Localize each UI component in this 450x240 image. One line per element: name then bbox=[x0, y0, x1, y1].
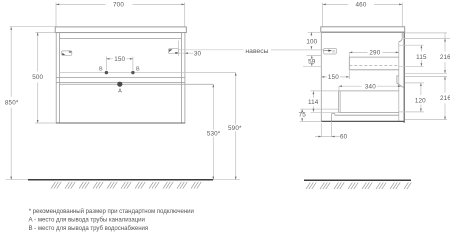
dimension 700 extension lines bbox=[56, 3, 185, 27]
upper drawer box hidden bottom (dashed) bbox=[349, 64, 399, 66]
dimension 460 line bbox=[323, 3, 403, 5]
dimension 850 top extension bbox=[10, 26, 56, 28]
cabinet top edge (side) bbox=[321, 32, 404, 34]
dimension 216 lower extension lines bbox=[405, 77, 448, 120]
dimension 460 arrows bbox=[323, 4, 403, 6]
dimension 500 top extension bbox=[36, 31, 56, 33]
lower drawer step verticals bbox=[332, 114, 335, 122]
dimension 700 line bbox=[56, 3, 185, 5]
dimension 500 arrows bbox=[37, 32, 39, 123]
node B right dot bbox=[131, 71, 134, 74]
dimension 500 line bbox=[37, 32, 39, 123]
svg-text:А - место для вывода трубы кан: А - место для вывода трубы канализации bbox=[29, 217, 145, 224]
hangers leader dashed line left segment bbox=[179, 49, 244, 51]
upper drawer box top bbox=[349, 56, 399, 58]
dimension 30 arrows bbox=[175, 52, 188, 54]
dimension 100 top extension bbox=[308, 31, 322, 33]
drawer gap lower line bbox=[56, 81, 185, 83]
hanger bracket icon left bbox=[62, 51, 72, 55]
dimension 590 line bbox=[235, 73, 237, 180]
cabinet bottom left extension bbox=[300, 120, 322, 122]
dimension 340 line bbox=[339, 85, 401, 87]
countertop (side view) bbox=[321, 27, 405, 32]
countertop (front view) bbox=[55, 27, 186, 33]
dimension 100 line bbox=[310, 32, 312, 49]
svg-text:30: 30 bbox=[194, 50, 202, 57]
svg-text:60: 60 bbox=[340, 134, 348, 141]
dimension 114 arrows bbox=[313, 91, 315, 112]
upper drawer box bottom bbox=[349, 69, 399, 71]
node A dot bbox=[117, 82, 122, 87]
svg-text:75: 75 bbox=[299, 112, 307, 119]
floor line right bbox=[304, 179, 411, 181]
cabinet front edge (side) bbox=[320, 33, 322, 122]
svg-text:150: 150 bbox=[328, 74, 339, 81]
dimension 460 extension lines bbox=[323, 3, 403, 27]
svg-text:В: В bbox=[136, 67, 140, 73]
hanger bracket icon (side view) bbox=[324, 48, 337, 54]
floor extension left bbox=[6, 179, 29, 181]
dimension 100 arrows bbox=[311, 32, 313, 49]
dimension 216 upper extension lines bbox=[404, 33, 450, 73]
dimension 114 mid extension bbox=[311, 111, 339, 113]
middle hanging rail notch bbox=[397, 76, 404, 88]
dimension 340 arrows bbox=[339, 85, 401, 87]
dimension 290 line bbox=[349, 51, 399, 53]
upper drawer box front bbox=[348, 57, 350, 70]
hanger bracket icon right bbox=[168, 49, 178, 54]
cabinet top rail line bbox=[59, 37, 181, 39]
dimension 530 arrows bbox=[212, 84, 214, 179]
dimension 60 line bbox=[315, 136, 340, 138]
node A reference line bbox=[59, 83, 213, 85]
dimension 150 right extension bbox=[348, 71, 350, 80]
svg-text:120: 120 bbox=[415, 97, 426, 104]
svg-text:В - место для вывода труб водо: В - место для вывода труб водоснабжения bbox=[29, 225, 149, 232]
svg-text:590*: 590* bbox=[228, 125, 242, 132]
dimension 114 line bbox=[312, 91, 314, 112]
dimension 150 extension lines bbox=[106, 57, 132, 71]
cabinet inner back line bbox=[398, 42, 400, 122]
dimension 850 line bbox=[10, 27, 12, 180]
svg-text:* рекомендованный размер при с: * рекомендованный размер при стандартном… bbox=[29, 208, 194, 215]
lower drawer slide line bbox=[335, 114, 399, 116]
floor extension mid bbox=[213, 179, 240, 181]
svg-text:59: 59 bbox=[308, 58, 316, 65]
svg-text:530*: 530* bbox=[207, 130, 221, 137]
lower drawer box front (double) bbox=[339, 91, 341, 113]
dimension 115 extension lines bbox=[399, 45, 424, 66]
dimension 30 extension line bbox=[177, 41, 179, 57]
svg-text:700: 700 bbox=[113, 2, 124, 9]
dimension 530 line bbox=[212, 84, 214, 179]
dimension 115 line bbox=[420, 45, 422, 66]
svg-text:В: В bbox=[99, 67, 103, 73]
dimension 75 line bbox=[301, 109, 303, 121]
dimension 60 arrows bbox=[318, 136, 334, 138]
drawer inner bottom line bbox=[300, 108, 338, 110]
dimension 216 lower arrows bbox=[444, 77, 446, 120]
svg-text:216: 216 bbox=[440, 95, 450, 102]
dimension 290 arrows bbox=[349, 52, 399, 54]
dimension 150 arrows bbox=[321, 76, 349, 78]
cabinet back edge (side, wall) bbox=[403, 33, 405, 123]
svg-text:460: 460 bbox=[356, 2, 367, 9]
dimension 120 arrows bbox=[420, 83, 422, 112]
svg-text:340: 340 bbox=[365, 83, 376, 90]
svg-text:А: А bbox=[118, 89, 122, 95]
dimension 340 left extension bbox=[338, 86, 340, 91]
svg-text:100: 100 bbox=[306, 39, 317, 46]
top hanging rail notch bbox=[399, 33, 402, 42]
node B reference line bbox=[59, 72, 235, 74]
svg-text:навесы: навесы bbox=[245, 48, 268, 55]
cabinet bottom bbox=[56, 122, 185, 124]
lower drawer box bottom bbox=[339, 111, 399, 113]
cabinet left side panel bbox=[56, 33, 59, 123]
dimension 120 extension lines bbox=[399, 83, 424, 112]
drawer gap upper line bbox=[56, 76, 185, 78]
dimension 216 upper line bbox=[444, 33, 446, 73]
dimension 700 arrows bbox=[56, 4, 185, 6]
svg-text:115: 115 bbox=[416, 54, 427, 61]
floor hatching left bbox=[51, 182, 201, 189]
dimension 115 arrows bbox=[421, 45, 423, 66]
node B left dot bbox=[105, 71, 108, 74]
hangers leader dashed line right segment bbox=[271, 49, 324, 51]
dimension 150 arrows bbox=[106, 58, 132, 60]
dimension 30 line bbox=[172, 52, 194, 54]
svg-text:114: 114 bbox=[308, 99, 319, 106]
dimension 150 line bbox=[321, 76, 349, 78]
dimension 150 line bbox=[106, 58, 132, 60]
dimension 290 left extension bbox=[348, 52, 350, 57]
500 bottom extension line bbox=[35, 122, 56, 124]
dimension 60 extension lines bbox=[321, 121, 331, 137]
dimension 59 extension lines bbox=[303, 56, 321, 67]
dimension 216 lower line bbox=[444, 77, 446, 120]
svg-text:290: 290 bbox=[369, 50, 380, 57]
dimension 75 arrows bbox=[301, 109, 303, 121]
dimension 59 arrows bbox=[311, 56, 313, 67]
dimension 590 arrows bbox=[235, 73, 237, 180]
cabinet bottom (side) bbox=[321, 120, 404, 122]
floor hatching right bbox=[306, 182, 411, 189]
lower drawer box top bbox=[339, 90, 399, 92]
dimension 850 arrows bbox=[10, 27, 12, 180]
svg-text:500: 500 bbox=[32, 74, 43, 81]
dimension 114 top extension bbox=[311, 90, 339, 92]
dimension 120 line bbox=[420, 83, 422, 112]
dimension 59 line bbox=[311, 56, 313, 67]
svg-text:216: 216 bbox=[440, 54, 450, 61]
floor line left bbox=[28, 179, 213, 181]
svg-text:150: 150 bbox=[114, 56, 125, 63]
cabinet right side panel bbox=[181, 33, 185, 123]
dimension 216 upper arrows bbox=[444, 39, 446, 74]
svg-text:850*: 850* bbox=[5, 100, 19, 107]
